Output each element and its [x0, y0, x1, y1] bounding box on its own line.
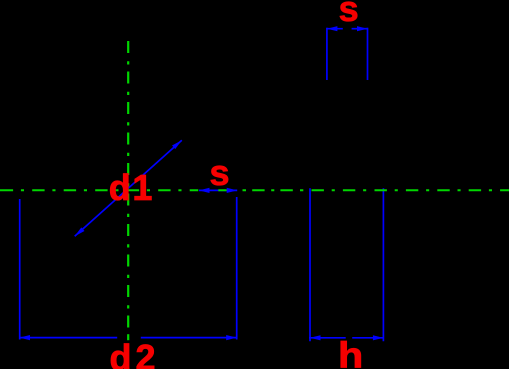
- s mid left arrowhead: [199, 188, 210, 193]
- h left arrowhead: [310, 335, 321, 340]
- centerline: vertical axis: [127, 41, 129, 332]
- wire: h dimension line right part: [352, 337, 384, 339]
- centerline: vertical axis bottom tip: [127, 334, 129, 340]
- wire: d2 right extension line: [236, 197, 238, 340]
- wire: s top dimension line left part: [327, 28, 343, 30]
- d1 lower-left arrowhead: [75, 227, 85, 236]
- wire: s top dimension line right part: [352, 28, 368, 30]
- h right arrowhead: [373, 335, 384, 340]
- centerline: horizontal axis right piece: [218, 189, 509, 191]
- wire: s top left extension line: [326, 28, 328, 80]
- wire: h right extension line: [382, 188, 384, 341]
- wire: s top right extension line: [367, 28, 369, 80]
- centerline: horizontal axis left piece: [0, 189, 198, 191]
- d2 left arrowhead: [20, 335, 31, 340]
- s top left arrowhead: [327, 26, 338, 31]
- svg-text:s: s: [210, 152, 230, 193]
- svg-text:d1: d1: [109, 167, 154, 208]
- wire: s mid dimension line: [199, 189, 237, 191]
- d1 diagonal diameter line: [75, 140, 182, 236]
- wire: d2 left extension line: [19, 199, 21, 340]
- s top right arrowhead: [357, 26, 368, 31]
- d1 upper-right arrowhead: [172, 140, 182, 149]
- wire: h left extension line: [309, 188, 311, 341]
- svg-text:d2: d2: [110, 337, 160, 369]
- svg-text:h: h: [338, 336, 363, 369]
- svg-text:s: s: [339, 0, 359, 29]
- wire: h dimension line left part: [309, 337, 346, 339]
- d2 right arrowhead: [226, 335, 237, 340]
- wire: d2 dimension line left part: [20, 337, 118, 339]
- wire: d2 dimension line right part: [141, 337, 237, 339]
- s mid right arrowhead: [227, 188, 238, 193]
